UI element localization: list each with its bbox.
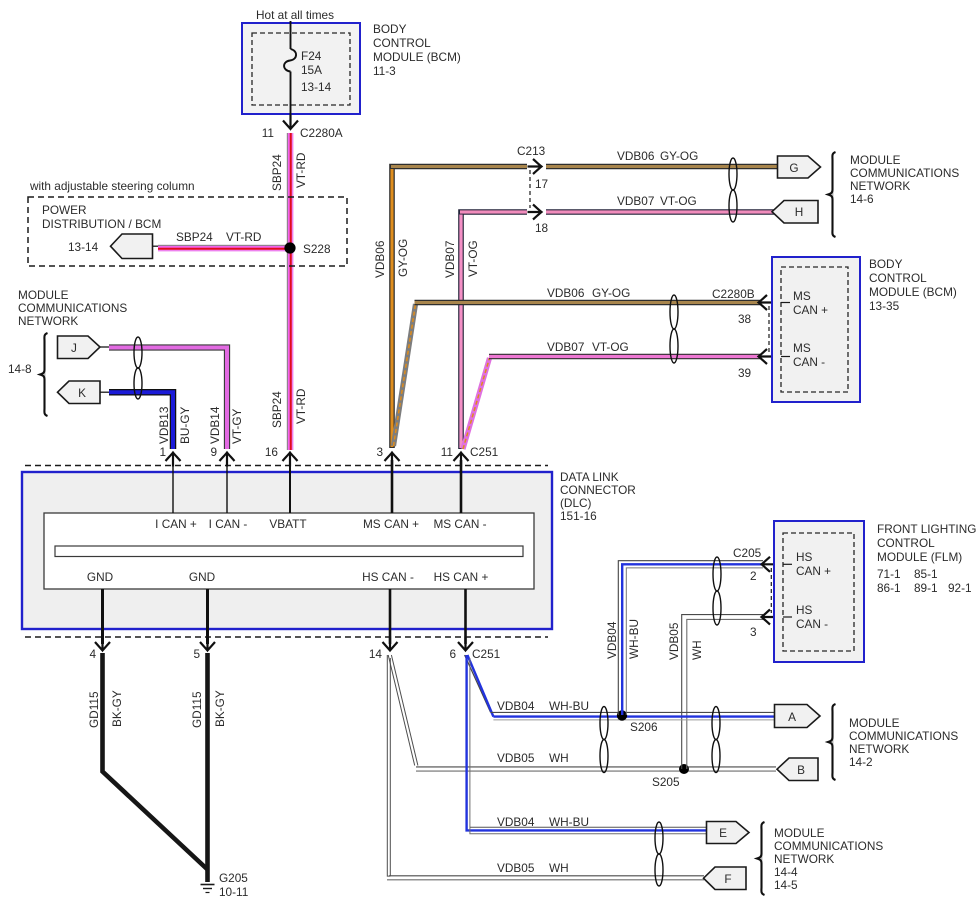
connector K (left-pointing): [58, 381, 110, 404]
FLM title: [877, 522, 976, 595]
svg-text:14: 14: [369, 647, 383, 661]
svg-text:VDB05: VDB05: [497, 751, 535, 765]
wire VDB14 VT-GY from J to DLC pin 9: [109, 348, 227, 450]
connector C251 bottom dashed line: [25, 636, 548, 638]
svg-text:GY-OG: GY-OG: [396, 239, 410, 277]
svg-text:with adjustable steering colum: with adjustable steering column: [29, 179, 195, 193]
svg-text:WH-BU: WH-BU: [549, 699, 589, 713]
svg-text:VT-GY: VT-GY: [230, 408, 244, 444]
POWER DISTRIBUTION / BCM dashed box: [28, 197, 347, 266]
svg-text:(DLC): (DLC): [560, 496, 592, 510]
label VDB06 vertical: [373, 240, 387, 278]
svg-text:BU-GY: BU-GY: [178, 407, 192, 444]
label VDB05 vertical: [667, 622, 681, 660]
svg-text:VDB04: VDB04: [497, 699, 535, 713]
svg-text:13-35: 13-35: [869, 299, 900, 313]
svg-text:MODULE: MODULE: [774, 826, 825, 840]
brace for J/K group: [40, 333, 48, 416]
svg-text:G: G: [789, 161, 798, 175]
svg-text:NETWORK: NETWORK: [849, 742, 909, 756]
label BU-GY: [178, 407, 192, 444]
svg-text:BK-GY: BK-GY: [110, 690, 124, 727]
svg-text:11: 11: [262, 126, 274, 140]
wire VDB04 WH-BU from S206 up to FLM pin 2: [618, 561, 763, 715]
DLC pin name labels: [87, 517, 489, 584]
connector F (left-pointing): [704, 867, 747, 890]
label GY-OG vertical: [396, 239, 410, 277]
svg-text:GND: GND: [189, 570, 215, 584]
wire VDB05 WH horizontal to connector F: [387, 861, 704, 880]
wire VDB04 WH-BU from DLC pin 6 down to connector E: [467, 655, 707, 834]
svg-text:MS: MS: [793, 341, 811, 355]
fuse F24 15A symbol: [284, 49, 332, 94]
svg-text:VT-RD: VT-RD: [294, 389, 308, 424]
DLC top pin arrows and numbers: [159, 445, 498, 467]
svg-text:C2280A: C2280A: [300, 126, 343, 140]
svg-text:VT-OG: VT-OG: [466, 240, 480, 277]
svg-text:GY-OG: GY-OG: [660, 149, 698, 163]
svg-text:SBP24: SBP24: [270, 154, 284, 191]
svg-text:CONTROL: CONTROL: [373, 36, 431, 50]
svg-text:4: 4: [89, 647, 96, 661]
connector H (left-pointing): [772, 201, 818, 224]
svg-text:17: 17: [535, 177, 548, 191]
splice S205: [652, 764, 689, 789]
svg-text:C251: C251: [470, 445, 498, 459]
label with adjustable steering column: [29, 179, 195, 193]
svg-text:VDB04: VDB04: [497, 815, 535, 829]
wire VDB06 GY-OG from C213 corner down to DLC pin 3: [391, 167, 527, 449]
wire VDB05 WH vertical from DLC pin 14 down to F branch: [387, 655, 390, 876]
BCM right title: [869, 257, 957, 313]
label VDB13: [157, 406, 171, 444]
svg-text:89-1: 89-1: [914, 581, 938, 595]
svg-text:COMMUNICATIONS: COMMUNICATIONS: [849, 729, 958, 743]
svg-text:MS CAN -: MS CAN -: [433, 517, 486, 531]
label VT-GY: [230, 408, 244, 444]
brace for E/F group: [757, 822, 765, 895]
svg-text:5: 5: [193, 647, 200, 661]
label VT-RD lower: [294, 389, 308, 424]
label VDB07 vertical: [443, 241, 457, 278]
svg-text:38: 38: [738, 312, 752, 326]
svg-text:11-3: 11-3: [373, 64, 396, 78]
label WH vertical: [690, 640, 704, 660]
connector C251 top dashed line: [25, 465, 548, 467]
svg-text:BK-GY: BK-GY: [213, 690, 227, 727]
svg-text:MODULE (FLM): MODULE (FLM): [877, 550, 962, 564]
svg-text:CAN -: CAN -: [793, 355, 825, 369]
connector C213 arrows and label: [517, 144, 549, 235]
FRONT LIGHTING CONTROL MODULE box: [774, 521, 864, 662]
svg-text:13-14: 13-14: [68, 240, 99, 254]
label GD115 pin5: [190, 691, 204, 728]
svg-text:71-1: 71-1: [877, 567, 901, 581]
svg-text:I CAN +: I CAN +: [155, 517, 197, 531]
BCM title text: [373, 22, 461, 78]
svg-text:16: 16: [265, 445, 279, 459]
twisted pair symbol C205 wires: [713, 557, 721, 625]
svg-text:GD115: GD115: [87, 691, 101, 728]
DLC internal wire pin6: [464, 589, 467, 644]
svg-text:CONTROL: CONTROL: [877, 536, 935, 550]
connector C2280B arrows and label: [712, 287, 773, 380]
label BK-GY pin4: [110, 690, 124, 727]
svg-text:S205: S205: [652, 775, 680, 789]
svg-text:VDB07: VDB07: [617, 194, 654, 208]
connector B (left-pointing): [777, 758, 818, 781]
svg-text:J: J: [71, 341, 77, 355]
connector C2280A pin 11 arrow: [262, 115, 343, 140]
svg-text:WH-BU: WH-BU: [627, 619, 641, 659]
wire VDB04 WH-BU slant from DLC pin 6 to wire A: [465, 655, 494, 717]
svg-text:DATA LINK: DATA LINK: [560, 470, 619, 484]
svg-text:GND: GND: [87, 570, 113, 584]
svg-text:9: 9: [210, 445, 217, 459]
wire SBP24 VT-RD vertical to DLC pin 16: [287, 133, 294, 450]
svg-text:14-5: 14-5: [774, 878, 798, 892]
svg-text:SBP24: SBP24: [270, 391, 284, 428]
svg-text:S228: S228: [303, 242, 331, 256]
wire VDB05 WH slant from DLC pin 14 to S205 branch: [388, 655, 418, 766]
svg-text:VDB05: VDB05: [667, 622, 681, 660]
svg-text:VT-RD: VT-RD: [294, 153, 308, 188]
svg-text:VDB05: VDB05: [497, 861, 535, 875]
svg-text:BODY: BODY: [869, 257, 903, 271]
svg-text:VDB07: VDB07: [443, 241, 457, 278]
label SBP24 lower: [270, 391, 284, 428]
svg-text:39: 39: [738, 366, 751, 380]
svg-text:151-16: 151-16: [560, 509, 597, 523]
DLC internal wire pin9: [226, 460, 228, 513]
label SBP24 upper: [270, 154, 284, 191]
svg-text:S206: S206: [630, 720, 658, 734]
BODY CONTROL MODULE (BCM) right box: [772, 257, 860, 402]
svg-text:VDB07: VDB07: [547, 340, 584, 354]
svg-text:VDB06: VDB06: [373, 240, 387, 278]
svg-text:BODY: BODY: [373, 22, 407, 36]
wire VDB06 GY-OG slant from DLC pin 3 to BCM branch: [394, 304, 416, 446]
wire VDB05 WH from S205 up to FLM pin 3: [682, 615, 763, 769]
svg-text:86-1: 86-1: [877, 581, 901, 595]
splice S206: [617, 710, 658, 734]
svg-text:MS: MS: [793, 289, 811, 303]
wire VDB04 WH-BU horizontal to connector A: [491, 699, 775, 720]
svg-text:Hot at all times: Hot at all times: [256, 8, 334, 22]
twisted pair symbol G/H wires: [729, 158, 737, 222]
svg-text:HS CAN +: HS CAN +: [434, 570, 489, 584]
svg-text:CAN +: CAN +: [796, 564, 831, 578]
svg-text:VDB06: VDB06: [547, 286, 585, 300]
ground G205 symbol: [201, 871, 249, 899]
svg-text:F24: F24: [301, 49, 322, 63]
twisted pair symbol E/F wires: [655, 822, 663, 886]
svg-text:CAN -: CAN -: [796, 617, 828, 631]
svg-text:15A: 15A: [301, 63, 322, 77]
wire VDB06 GY-OG horizontal to BCM pin 38: [415, 286, 761, 303]
wire from Hot at all times into fuse: [290, 21, 292, 49]
svg-text:WH-BU: WH-BU: [549, 815, 589, 829]
wire VDB07 VT-OG slant from DLC pin 11 to BCM branch: [463, 358, 490, 449]
DLC internal wire pin16: [289, 460, 291, 513]
connector G (right-pointing): [778, 156, 821, 178]
svg-text:WH: WH: [549, 861, 569, 875]
svg-text:POWER: POWER: [42, 203, 87, 217]
MODULE COMMUNICATIONS NETWORK 14-4 14-5 label: [774, 826, 883, 892]
svg-text:14-2: 14-2: [849, 755, 873, 769]
svg-text:SBP24: SBP24: [176, 230, 213, 244]
wire VDB05 WH horizontal to connector B: [416, 751, 776, 771]
label BK-GY pin5: [213, 690, 227, 727]
svg-text:A: A: [788, 710, 796, 724]
svg-text:C2280B: C2280B: [712, 287, 755, 301]
svg-text:CONNECTOR: CONNECTOR: [560, 483, 636, 497]
MODULE COMMUNICATIONS NETWORK 14-6 label: [850, 153, 959, 206]
wire VDB07 VT-OG from C213 to connector H: [546, 194, 774, 212]
svg-text:2: 2: [750, 569, 757, 583]
svg-text:3: 3: [376, 445, 383, 459]
wire from fuse to connector C2280A: [290, 72, 292, 123]
power distribution connector (left-pointing): [111, 234, 161, 259]
label Hot at all times: [256, 8, 334, 22]
svg-text:6: 6: [449, 647, 456, 661]
svg-text:NETWORK: NETWORK: [18, 314, 78, 328]
DLC internal wire pin1: [172, 460, 174, 513]
MODULE COMMUNICATIONS NETWORK 14-2 label: [849, 716, 958, 769]
svg-text:GD115: GD115: [190, 691, 204, 728]
svg-text:K: K: [78, 386, 86, 400]
DLC internal wire pin5: [206, 589, 209, 644]
svg-text:CONTROL: CONTROL: [869, 271, 927, 285]
DLC internal wire pin11: [460, 460, 463, 513]
wire VDB13 BU-GY from K to DLC pin 1: [109, 392, 173, 449]
svg-text:10-11: 10-11: [219, 885, 248, 899]
splice S228: [284, 242, 331, 256]
DLC internal wire pin3: [391, 460, 394, 513]
svg-text:85-1: 85-1: [914, 567, 938, 581]
brace for A/B group: [828, 704, 836, 780]
svg-text:H: H: [795, 205, 804, 219]
wire VDB06 GY-OG from C213 to connector G: [546, 149, 778, 167]
svg-text:C213: C213: [517, 144, 546, 158]
svg-text:G205: G205: [219, 871, 248, 885]
wire VDB07 VT-OG from C213 corner down to DLC pin 11: [460, 212, 527, 449]
svg-text:GY-OG: GY-OG: [592, 286, 630, 300]
svg-text:13-14: 13-14: [301, 80, 332, 94]
svg-text:COMMUNICATIONS: COMMUNICATIONS: [774, 839, 883, 853]
svg-text:C251: C251: [472, 647, 500, 661]
DLC internal wire pin14: [389, 589, 392, 644]
svg-text:F: F: [724, 872, 731, 886]
svg-text:MS CAN +: MS CAN +: [363, 517, 419, 531]
brace for G/H group: [828, 152, 836, 237]
connector A (right-pointing): [775, 705, 821, 728]
label VDB14: [208, 406, 222, 444]
svg-text:14-4: 14-4: [774, 865, 798, 879]
svg-text:E: E: [719, 826, 727, 840]
svg-text:1: 1: [159, 445, 166, 459]
svg-text:I CAN -: I CAN -: [209, 517, 248, 531]
twisted pair symbol BCM wires: [670, 295, 678, 363]
label VDB04 vertical: [605, 621, 619, 659]
svg-text:MODULE: MODULE: [849, 716, 900, 730]
svg-text:HS: HS: [796, 550, 813, 564]
connector E (right-pointing): [707, 822, 750, 844]
svg-text:VBATT: VBATT: [269, 517, 306, 531]
svg-text:VT-OG: VT-OG: [592, 340, 629, 354]
label GD115 pin4: [87, 691, 101, 728]
svg-text:FRONT LIGHTING: FRONT LIGHTING: [877, 522, 976, 536]
twisted pair symbol A/B wires right: [712, 707, 720, 773]
MODULE COMMUNICATIONS NETWORK label left: [8, 288, 127, 376]
svg-text:DISTRIBUTION / BCM: DISTRIBUTION / BCM: [42, 217, 161, 231]
svg-text:HS: HS: [796, 603, 813, 617]
twisted pair symbol A/B wires left: [600, 707, 608, 773]
svg-text:VT-OG: VT-OG: [660, 194, 697, 208]
svg-text:NETWORK: NETWORK: [850, 179, 910, 193]
svg-text:11: 11: [441, 445, 453, 459]
DATA LINK CONNECTOR (DLC) box: [22, 472, 552, 629]
svg-text:MODULE: MODULE: [850, 153, 901, 167]
label VT-OG vertical: [466, 240, 480, 277]
svg-text:92-1: 92-1: [948, 581, 972, 595]
svg-text:MODULE (BCM): MODULE (BCM): [373, 50, 461, 64]
wire VDB07 VT-OG horizontal to BCM pin 39: [489, 340, 760, 357]
connector C205 arrows and label: [733, 546, 776, 639]
wire GD115 BK-GY from DLC pin 5 to ground: [205, 653, 210, 882]
svg-text:VDB04: VDB04: [605, 621, 619, 659]
svg-text:CAN +: CAN +: [793, 303, 828, 317]
svg-text:14-8: 14-8: [8, 362, 32, 376]
label VT-RD upper: [294, 153, 308, 188]
DLC bottom pin arrows and numbers: [89, 637, 500, 662]
svg-text:VT-RD: VT-RD: [226, 230, 261, 244]
twisted pair symbol J/K: [134, 337, 142, 399]
svg-text:B: B: [797, 763, 805, 777]
svg-text:WH: WH: [549, 751, 569, 765]
svg-text:HS CAN -: HS CAN -: [362, 570, 414, 584]
svg-text:NETWORK: NETWORK: [774, 852, 834, 866]
BCM fuse box (BODY CONTROL MODULE): [242, 23, 360, 114]
svg-text:MODULE: MODULE: [18, 288, 69, 302]
DLC internal wire pin4: [101, 589, 104, 644]
svg-text:MODULE (BCM): MODULE (BCM): [869, 285, 957, 299]
svg-text:18: 18: [535, 221, 549, 235]
svg-text:VDB14: VDB14: [208, 406, 222, 444]
DLC title: [560, 470, 636, 523]
svg-text:3: 3: [750, 625, 757, 639]
connector J (right-pointing): [58, 336, 110, 359]
wire SBP24 VT-RD horizontal from power distribution to S228: [158, 230, 290, 251]
svg-text:VDB06: VDB06: [617, 149, 655, 163]
svg-text:VDB13: VDB13: [157, 406, 171, 444]
svg-text:14-6: 14-6: [850, 192, 874, 206]
svg-text:C205: C205: [733, 546, 762, 560]
svg-text:COMMUNICATIONS: COMMUNICATIONS: [18, 301, 127, 315]
wire GD115 BK-GY from DLC pin 4 to ground: [103, 653, 208, 870]
svg-text:WH: WH: [690, 640, 704, 660]
svg-text:COMMUNICATIONS: COMMUNICATIONS: [850, 166, 959, 180]
label WH-BU vertical: [627, 619, 641, 659]
